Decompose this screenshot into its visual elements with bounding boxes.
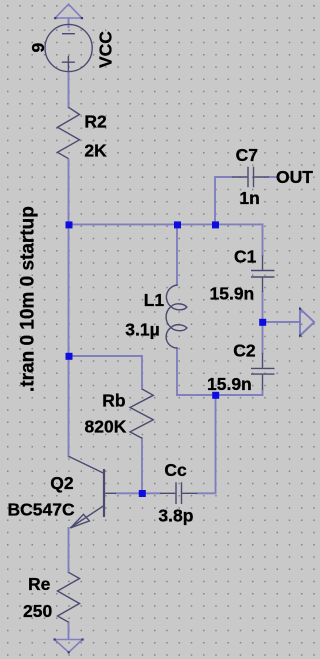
svg-text:15.9n: 15.9n: [207, 374, 252, 394]
svg-text:2K: 2K: [84, 141, 107, 161]
svg-text:15.9n: 15.9n: [210, 284, 255, 304]
svg-text:250: 250: [23, 601, 52, 621]
svg-text:Rb: Rb: [102, 391, 125, 411]
svg-text:OUT: OUT: [276, 167, 313, 187]
svg-text:C1: C1: [234, 247, 257, 267]
svg-text:Cc: Cc: [164, 460, 187, 480]
svg-text:C2: C2: [233, 341, 256, 361]
svg-text:R2: R2: [84, 112, 107, 132]
svg-text:Re: Re: [28, 574, 51, 594]
svg-text:820K: 820K: [85, 417, 127, 437]
svg-text:BC547C: BC547C: [8, 500, 75, 520]
svg-text:3.8p: 3.8p: [158, 506, 193, 526]
svg-text:VCC: VCC: [96, 31, 116, 68]
svg-text:3.1µ: 3.1µ: [125, 320, 159, 340]
svg-text:Q2: Q2: [50, 473, 74, 493]
svg-text:.tran 0 10m 0 startup: .tran 0 10m 0 startup: [18, 206, 39, 392]
svg-text:L1: L1: [144, 290, 165, 310]
svg-text:1n: 1n: [239, 188, 259, 208]
svg-text:9: 9: [28, 43, 48, 53]
svg-text:C7: C7: [236, 145, 258, 165]
